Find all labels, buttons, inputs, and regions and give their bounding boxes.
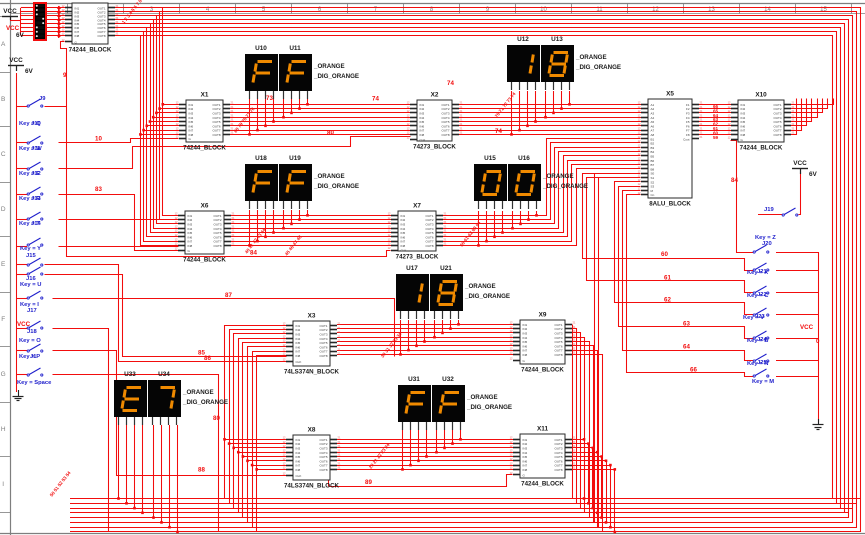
svg-text:J10: J10: [31, 121, 41, 127]
svg-text:A: A: [1, 41, 6, 48]
svg-text:X1: X1: [201, 92, 209, 99]
key switch Key = E: [19, 171, 43, 195]
wire net 10: key Q to X1 enable: [59, 139, 179, 143]
7-seg display U10 showing F: [245, 45, 278, 99]
svg-text:_DIG_ORANGE: _DIG_ORANGE: [466, 404, 512, 411]
svg-text:J15: J15: [26, 253, 36, 259]
svg-text:J1: J1: [30, 354, 37, 360]
wire key Space down to X8 area: [53, 375, 219, 532]
IC X1 74244_BLOCK: [176, 92, 234, 152]
key switch Key = W: [19, 146, 43, 170]
svg-text:74LS374N_BLOCK: 74LS374N_BLOCK: [284, 369, 340, 376]
svg-text:88: 88: [198, 467, 205, 474]
svg-text:74244_BLOCK: 74244_BLOCK: [69, 47, 112, 54]
svg-text:_DIG_ORANGE: _DIG_ORANGE: [182, 399, 228, 406]
svg-text:CLK: CLK: [296, 474, 302, 478]
svg-text:_DIG_ORANGE: _DIG_ORANGE: [575, 64, 621, 71]
svg-text:Cout: Cout: [683, 137, 690, 141]
7-seg display U34 showing 7: [148, 371, 181, 425]
svg-text:F: F: [1, 316, 5, 323]
svg-text:6V: 6V: [16, 32, 25, 39]
wire net 9: J9 key to 74244 enable: [45, 42, 67, 107]
key switch J9: [27, 96, 46, 107]
wire tap into X1 input pin: [140, 134, 179, 136]
svg-text:G: G: [1, 371, 6, 378]
svg-text:_DIG_ORANGE: _DIG_ORANGE: [464, 293, 510, 300]
IC X6 74244_BLOCK: [175, 203, 235, 264]
svg-text:62: 62: [664, 297, 671, 304]
svg-text:74LS374N_BLOCK: 74LS374N_BLOCK: [284, 483, 340, 490]
wire U18/U19 display pins down to X6-X7 bus (staircase): [249, 210, 251, 245]
wire tap into X1 input pin: [153, 117, 179, 119]
wire bus X3 outputs to X9 inputs: [337, 324, 513, 326]
svg-text:U15: U15: [484, 155, 496, 162]
wire net 83: key E to X6 enable: [59, 195, 179, 251]
svg-text:6V: 6V: [809, 171, 818, 178]
wire risers bottom bus up to U33/U34 display pins: [118, 425, 120, 499]
key switch Key = Y: [20, 246, 43, 266]
svg-text:74244_BLOCK: 74244_BLOCK: [183, 257, 226, 264]
svg-text:VCC: VCC: [793, 160, 807, 167]
svg-text:J9: J9: [39, 96, 46, 102]
svg-text:J19: J19: [764, 207, 774, 213]
wire bus X2 outputs to X5 A inputs: [459, 104, 641, 106]
wire key R to X6 pin2: [59, 219, 179, 221]
svg-text:U32: U32: [442, 376, 454, 383]
svg-text:60: 60: [661, 251, 668, 258]
svg-text:Key = U: Key = U: [20, 282, 41, 288]
key switch Key = U: [20, 267, 43, 288]
svg-text:J13: J13: [31, 196, 41, 202]
svg-text:H: H: [1, 426, 6, 433]
wire bus X6 outputs to X7 inputs: [231, 215, 391, 217]
wire U17/U21 display pins down to X3-X9 bus (staircase): [400, 320, 402, 354]
wire U10/U11 display pins down to X1-X2 bus (staircase): [249, 99, 251, 134]
ground symbol: [13, 390, 24, 401]
svg-text:Cn: Cn: [651, 193, 655, 197]
wire U15/U16 display pins down to X7 output bus (staircase): [478, 211, 480, 245]
svg-text:I: I: [2, 481, 4, 488]
svg-text:74273_BLOCK: 74273_BLOCK: [413, 144, 456, 151]
svg-text:IN8: IN8: [741, 133, 746, 137]
svg-text:D: D: [1, 206, 6, 213]
7-seg display U13 showing 8: [541, 36, 574, 90]
wire key W to X2 CLK: [59, 137, 411, 169]
svg-text:IN8: IN8: [296, 354, 301, 358]
svg-text:74: 74: [447, 80, 454, 87]
sheet border frame: [10, 0, 12, 535]
svg-text:X3: X3: [308, 313, 316, 320]
svg-text:OUT8: OUT8: [554, 353, 562, 357]
key switch Key = Q: [19, 121, 43, 144]
7-seg display U31 showing F: [398, 376, 431, 430]
IC 74244_BLOCK: [62, 3, 119, 54]
svg-text:CLK: CLK: [296, 360, 302, 364]
svg-text:OUT8: OUT8: [319, 354, 327, 358]
svg-text:IN8: IN8: [75, 34, 80, 38]
svg-text:E: E: [1, 261, 6, 268]
key switch Key = P: [19, 344, 43, 360]
IC X3 74LS374N_BLOCK: [283, 313, 341, 376]
svg-text:B: B: [1, 96, 5, 103]
wire risers bottom bus up to X8 inputs then X3 inputs: [225, 326, 287, 499]
svg-text:74: 74: [372, 96, 379, 103]
wire net 60..65 from X5 control pins to right-hand keys: [583, 174, 754, 271]
svg-text:64: 64: [683, 344, 690, 351]
IC X8 74LS374N_BLOCK: [283, 427, 341, 490]
svg-text:74244_BLOCK: 74244_BLOCK: [740, 145, 783, 152]
wire U12/U13 display pins down to X2-X5 bus (staircase): [511, 91, 513, 134]
svg-text:_DIG_ORANGE: _DIG_ORANGE: [313, 73, 359, 80]
svg-text:X9: X9: [539, 312, 547, 319]
svg-text:U33: U33: [124, 371, 136, 378]
IC X10 74244_BLOCK: [728, 92, 795, 152]
svg-text:VCC: VCC: [800, 324, 814, 331]
svg-text:U17: U17: [406, 265, 418, 272]
svg-text:_ORANGE: _ORANGE: [182, 389, 214, 396]
wire tap into X1 input pin: [150, 121, 179, 123]
svg-text:VCC: VCC: [9, 57, 23, 64]
svg-text:X11: X11: [537, 426, 548, 433]
svg-text:IN8: IN8: [523, 353, 528, 357]
7-seg display U15 showing 0: [474, 155, 507, 209]
svg-text:OUT8: OUT8: [319, 468, 327, 472]
IC X11 74244_BLOCK: [510, 426, 576, 488]
wire net 89: X8 to X11 CLK: [329, 475, 513, 487]
svg-text:VCC: VCC: [6, 25, 20, 32]
svg-text:X5: X5: [666, 91, 674, 98]
DIP switch wiring to 74244 and VCC: [46, 7, 65, 9]
svg-text:Key = Space: Key = Space: [17, 380, 52, 386]
extra X5 control feed verticals to bottom bus: [595, 174, 641, 523]
7-seg display U18 showing F: [245, 155, 278, 209]
svg-text:U12: U12: [517, 36, 529, 43]
svg-text:_ORANGE: _ORANGE: [575, 54, 607, 61]
svg-text:74244_BLOCK: 74244_BLOCK: [521, 367, 564, 374]
7-seg display U11 showing F: [279, 45, 312, 99]
svg-text:10: 10: [95, 136, 102, 143]
red junction column between DIP and IC: [58, 6, 60, 38]
svg-text:IN8: IN8: [401, 244, 406, 248]
7-seg display U17 showing 1: [396, 265, 429, 319]
svg-text:OUT8: OUT8: [212, 133, 220, 137]
wire net 85: key U to X3 IN8 row: [45, 275, 287, 357]
key switch J19: [764, 207, 798, 216]
svg-text:_ORANGE: _ORANGE: [466, 394, 498, 401]
wire U31/U32 display pins down to X8-X11 bus (staircase): [402, 430, 404, 469]
7-seg display U21 showing 8: [430, 265, 463, 319]
wire X10 outputs right with up-elbow staircase at sheet edge: [791, 99, 834, 105]
svg-text:J20: J20: [762, 241, 772, 247]
svg-text:80: 80: [327, 130, 334, 137]
svg-text:IN8: IN8: [420, 133, 425, 137]
svg-text:C: C: [1, 151, 6, 158]
VCC supply symbol: [8, 57, 34, 75]
key switch Key = C: [747, 286, 769, 299]
wire VCC right to J19: [799, 173, 801, 215]
svg-text:Key = Y: Key = Y: [20, 246, 41, 252]
wire X9 outputs down to bottom bus: [572, 325, 574, 499]
wire net 84 vertical: X10 enable down to key Z: [731, 141, 754, 253]
svg-text:IN8: IN8: [296, 468, 301, 472]
svg-text:0: 0: [816, 338, 820, 345]
svg-text:OUT8: OUT8: [773, 133, 781, 137]
key switch Key = V: [743, 308, 769, 321]
svg-text:_DIG_ORANGE: _DIG_ORANGE: [313, 183, 359, 190]
svg-text:X7: X7: [413, 203, 421, 210]
svg-text:_ORANGE: _ORANGE: [542, 173, 574, 180]
svg-text:CLK: CLK: [401, 249, 407, 253]
svg-text:U31: U31: [408, 376, 420, 383]
wire bottom bus rows: [70, 498, 861, 500]
svg-text:Key = M: Key = M: [752, 379, 774, 385]
svg-text:OUT8: OUT8: [441, 133, 449, 137]
svg-text:J22: J22: [757, 292, 767, 298]
wire tap into X1 input pin: [156, 112, 179, 114]
svg-text:U10: U10: [255, 45, 267, 52]
wire bus X1 outputs to X2 inputs: [230, 104, 410, 106]
svg-text:89: 89: [365, 479, 372, 486]
svg-text:87: 87: [225, 292, 232, 299]
key switch Key = M: [752, 369, 774, 385]
svg-text:X2: X2: [431, 92, 439, 99]
wire tap into X1 input pin: [160, 108, 179, 110]
svg-text:J16: J16: [26, 276, 36, 282]
svg-text:6V: 6V: [25, 68, 34, 75]
svg-text:86: 86: [204, 355, 211, 362]
svg-text:_ORANGE: _ORANGE: [313, 63, 345, 70]
svg-text:U21: U21: [440, 265, 452, 272]
key switch Key = T: [19, 221, 43, 246]
svg-text:X10: X10: [755, 92, 767, 99]
wire net 88: key P to X8 CLK: [53, 351, 287, 476]
svg-text:OUT8: OUT8: [213, 244, 221, 248]
svg-text:J24: J24: [757, 337, 767, 343]
svg-text:OUT8: OUT8: [97, 34, 105, 38]
svg-text:U34: U34: [158, 371, 170, 378]
wire tap into X1 input pin: [144, 130, 179, 132]
wire X11 outputs down to bottom bus: [573, 440, 585, 499]
svg-text:U19: U19: [289, 155, 301, 162]
key switch Key = B: [747, 331, 769, 344]
svg-text:J17: J17: [27, 308, 37, 314]
VCC supply symbol: [792, 160, 818, 178]
key switch Key = N: [747, 354, 769, 367]
key switch Key = X: [747, 263, 769, 276]
svg-text:_ORANGE: _ORANGE: [464, 283, 496, 290]
left VCC rail feeding key column: [16, 73, 18, 390]
svg-text:J23: J23: [755, 314, 765, 320]
junction dots: [248, 133, 251, 136]
svg-text:J21: J21: [757, 269, 767, 275]
wire tap into X1 input pin: [147, 125, 179, 127]
wire net 87: key I down to X3 output bus: [53, 299, 395, 357]
svg-text:J18: J18: [27, 329, 37, 335]
wire net 84: continuation down to X7 CLK: [67, 107, 391, 257]
svg-text:74: 74: [495, 128, 502, 135]
svg-text:84: 84: [731, 177, 738, 184]
svg-text:U18: U18: [255, 155, 267, 162]
key switch Key = R: [19, 196, 43, 220]
IC X9 74244_BLOCK: [510, 312, 576, 374]
svg-text:83: 83: [95, 186, 102, 193]
svg-text:U11: U11: [289, 45, 301, 52]
7-seg display U33 showing E: [114, 371, 147, 425]
svg-text:8ALU_BLOCK: 8ALU_BLOCK: [649, 201, 691, 208]
wire verticals from top bus down to X1 and X6 input pins (left staircase bus): [163, 8, 179, 216]
svg-text:74244_BLOCK: 74244_BLOCK: [521, 481, 564, 488]
wire bus X5 outputs to X10 inputs: [699, 104, 731, 106]
svg-text:CLK: CLK: [420, 138, 426, 142]
svg-text:U16: U16: [518, 155, 530, 162]
svg-text:X6: X6: [201, 203, 209, 210]
IC X2 74273_BLOCK: [407, 92, 463, 151]
svg-text:U13: U13: [551, 36, 563, 43]
key switch Key = O: [19, 321, 43, 344]
svg-text:J14: J14: [31, 221, 41, 227]
IC X7 74273_BLOCK: [388, 203, 447, 261]
svg-text:74244_BLOCK: 74244_BLOCK: [183, 145, 226, 152]
svg-text:X8: X8: [308, 427, 316, 434]
wire key O down across U33 labels: [53, 329, 109, 532]
svg-text:_DIG_ORANGE: _DIG_ORANGE: [542, 183, 588, 190]
svg-text:IN8: IN8: [188, 244, 193, 248]
svg-text:J25: J25: [757, 360, 767, 366]
7-seg display U19 showing F: [279, 155, 312, 209]
wire key T to X6 pin7: [59, 246, 179, 248]
ground symbol: [813, 419, 824, 430]
key switch Key = I: [20, 291, 43, 314]
svg-text:74273_BLOCK: 74273_BLOCK: [396, 254, 439, 261]
svg-text:61: 61: [664, 275, 671, 282]
wire bus X8 outputs to X11 inputs: [337, 439, 513, 441]
key switch Key = Z: [753, 235, 776, 253]
svg-text:80: 80: [213, 415, 220, 422]
svg-text:_ORANGE: _ORANGE: [313, 173, 345, 180]
DIP switch block: [34, 3, 46, 40]
svg-text:59: 59: [713, 135, 719, 140]
svg-text:63: 63: [683, 321, 690, 328]
svg-text:84: 84: [250, 250, 257, 257]
svg-text:73: 73: [266, 95, 273, 102]
svg-text:J11: J11: [31, 146, 41, 152]
svg-text:Key = O: Key = O: [19, 338, 41, 344]
svg-text:IN8: IN8: [523, 468, 528, 472]
7-seg display U12 showing 1: [507, 36, 540, 90]
7-seg display U32 showing F: [432, 376, 465, 430]
IC X5 8ALU_BLOCK: [638, 91, 703, 208]
wire right keys common to ground rail: [776, 252, 818, 254]
svg-text:J12: J12: [31, 171, 41, 177]
wire net 86: key Y to X3 CLK: [45, 265, 287, 362]
stub for net 89 at X8: [328, 480, 330, 486]
key switch Key = Space: [17, 368, 52, 386]
svg-text:9: 9: [63, 72, 67, 79]
wire tap into X1 input pin: [163, 104, 179, 106]
svg-text:VCC: VCC: [3, 8, 17, 15]
svg-text:OUT8: OUT8: [425, 244, 433, 248]
svg-text:OUT8: OUT8: [554, 468, 562, 472]
wire X7 outputs right then up to X5 B inputs (nested elbows): [443, 139, 641, 216]
svg-text:66: 66: [690, 367, 697, 374]
7-seg display U16 showing 0: [508, 155, 541, 209]
